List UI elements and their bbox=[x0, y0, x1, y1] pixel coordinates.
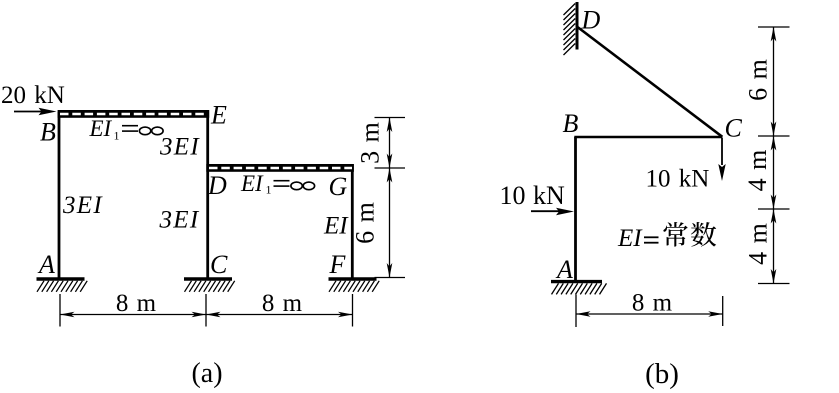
glyph shu bbox=[691, 222, 716, 247]
svg-text:20 kN: 20 kN bbox=[1, 82, 65, 109]
svg-text:3EI: 3EI bbox=[62, 192, 103, 219]
svg-text:8 m: 8 m bbox=[262, 290, 303, 317]
fixed support A (fig b) bbox=[551, 282, 607, 295]
column A-B bbox=[58, 112, 61, 279]
svg-text:A: A bbox=[37, 250, 55, 279]
svg-text:10 kN: 10 kN bbox=[646, 166, 710, 193]
svg-text:6 m: 6 m bbox=[744, 59, 773, 101]
inclined member D-C bbox=[578, 27, 723, 137]
svg-text:E: E bbox=[210, 101, 227, 130]
svg-text:1: 1 bbox=[114, 129, 120, 143]
label EI = constant bbox=[617, 222, 716, 252]
fixed support A bbox=[37, 279, 88, 292]
load 10 kN at mid column bbox=[500, 181, 575, 215]
svg-text:EI: EI bbox=[89, 116, 113, 141]
load 10 kN at C bbox=[646, 138, 726, 193]
column G-F bbox=[351, 164, 354, 279]
svg-text:3EI: 3EI bbox=[159, 207, 200, 234]
dimension 3 m right side bbox=[375, 118, 406, 169]
svg-text:A: A bbox=[555, 255, 573, 284]
svg-text:F: F bbox=[329, 250, 347, 279]
svg-text:4 m: 4 m bbox=[743, 150, 772, 192]
fixed support F bbox=[329, 279, 380, 292]
svg-text:(a): (a) bbox=[191, 358, 222, 389]
svg-text:4 m: 4 m bbox=[744, 223, 773, 265]
svg-text:EI: EI bbox=[323, 213, 349, 240]
svg-text:1: 1 bbox=[266, 183, 272, 197]
glyph chang bbox=[663, 222, 687, 247]
svg-text:B: B bbox=[40, 118, 56, 147]
svg-text:D: D bbox=[207, 171, 227, 200]
svg-text:B: B bbox=[563, 109, 579, 138]
dimension 6 m (fig b) bbox=[758, 27, 790, 136]
column E-D-C bbox=[206, 110, 209, 279]
dimension 4 m upper (fig b) bbox=[758, 136, 790, 209]
svg-text:8 m: 8 m bbox=[116, 290, 157, 317]
dimension 8 m (C-F) bbox=[206, 294, 353, 327]
svg-text:G: G bbox=[329, 172, 348, 201]
svg-text:3 m: 3 m bbox=[356, 122, 385, 164]
dimension 6 m right side bbox=[375, 168, 406, 278]
svg-text:EI: EI bbox=[240, 171, 264, 196]
rigid beam B-E bbox=[58, 110, 210, 118]
svg-text:6 m: 6 m bbox=[351, 202, 380, 244]
svg-text:8 m: 8 m bbox=[632, 290, 673, 317]
column B-A bbox=[574, 137, 577, 281]
svg-text:C: C bbox=[210, 250, 228, 279]
dimension 4 m lower (fig b) bbox=[758, 209, 790, 284]
svg-text:EI: EI bbox=[617, 225, 643, 252]
svg-text:D: D bbox=[581, 6, 601, 35]
svg-text:C: C bbox=[725, 114, 743, 143]
rigid beam D-G bbox=[206, 164, 354, 172]
svg-text:10 kN: 10 kN bbox=[500, 181, 566, 210]
load 20 kN at B bbox=[1, 82, 65, 115]
beam B-C bbox=[574, 136, 722, 139]
dimension 8 m (fig b) bbox=[576, 295, 723, 328]
dimension 8 m (A-C) bbox=[60, 294, 206, 327]
svg-text:(b): (b) bbox=[645, 358, 679, 390]
svg-text:3EI: 3EI bbox=[159, 134, 200, 161]
wall support at D bbox=[564, 2, 578, 55]
fixed support C bbox=[184, 279, 235, 292]
